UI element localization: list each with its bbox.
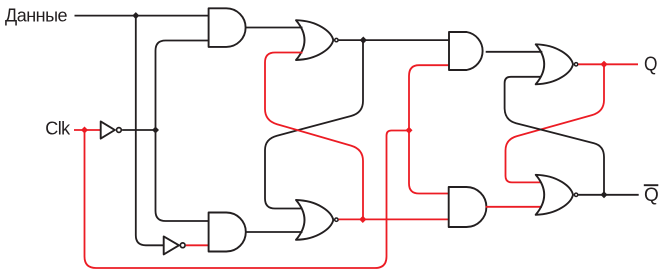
wire Clk red path down and around bottom to slave clock junction [85, 130, 410, 268]
wire N2 output to AND A4 bottom input (red) [339, 218, 449, 220]
wire A1 output to NOR N1 input [246, 27, 303, 29]
wire inverted clock up to AND A1 bottom input [156, 41, 209, 131]
wire A4 output to NOR N4 input (red) [486, 206, 542, 208]
wire Clk input (red) [74, 129, 101, 131]
svg-text:Q: Q [644, 53, 658, 76]
nor-gate N1 (master latch top) [296, 20, 333, 60]
wire A2 output to NOR N2 input [246, 231, 303, 233]
wire slave clock down to AND A4 top input (red) [409, 131, 449, 194]
wire slave clock up to AND A3 bottom input (red) [409, 65, 449, 130]
wire N3 output to Q (red) [578, 63, 638, 65]
node Q junction (red) [600, 61, 607, 68]
wire data branch down to inverter U2 [136, 16, 164, 246]
nor-gate N3 (slave latch top, Q) [536, 44, 573, 84]
and-gate A3 (slave set gate) [449, 32, 483, 70]
wire Q cross-coupling down to N4 top input (red) [506, 64, 605, 182]
and-gate A1 (master set gate) [209, 8, 246, 47]
node slave clock junction (red) [406, 127, 413, 134]
wire N2 output cross-coupling up to N1 bottom input (red) [265, 53, 363, 220]
wire A3 output to NOR N3 input [486, 51, 543, 53]
inverter U2 (data inverter) [164, 236, 179, 254]
wire U1 output to clock node [122, 129, 155, 131]
inverter U1 (clock inverter) [101, 121, 115, 138]
svg-text:Clk: Clk [45, 119, 71, 139]
node N2 output junction (red) [359, 216, 366, 223]
wire U2 output to AND A2 bottom input (red) [186, 244, 209, 246]
node Clk junction (red) [81, 127, 88, 134]
overline of Q-bar [644, 184, 659, 186]
wire Данные input to AND A1 top input [75, 15, 209, 17]
wire N1 output to AND A3 top input [339, 39, 449, 41]
wire N1 output cross-coupling down to N2 top input [265, 40, 363, 209]
svg-text:Данные: Данные [5, 5, 68, 25]
node data junction [132, 12, 139, 19]
svg-text:Q: Q [644, 185, 659, 206]
node N1 output junction [360, 37, 367, 44]
and-gate A2 (master reset gate) [209, 213, 246, 252]
nor-gate N4 (slave latch bottom, Q-bar) [536, 175, 573, 215]
node inverted clock junction [152, 127, 159, 134]
nor-gate N2 (master latch bottom) [296, 200, 333, 240]
wire N4 output cross-coupling up to N3 bottom input [505, 77, 604, 195]
wire N4 output to Q-bar [578, 194, 638, 196]
node Q-bar junction [601, 191, 608, 198]
and-gate A4 (slave reset gate) [449, 187, 487, 227]
wire inverted clock down to AND A2 top input [156, 130, 209, 221]
